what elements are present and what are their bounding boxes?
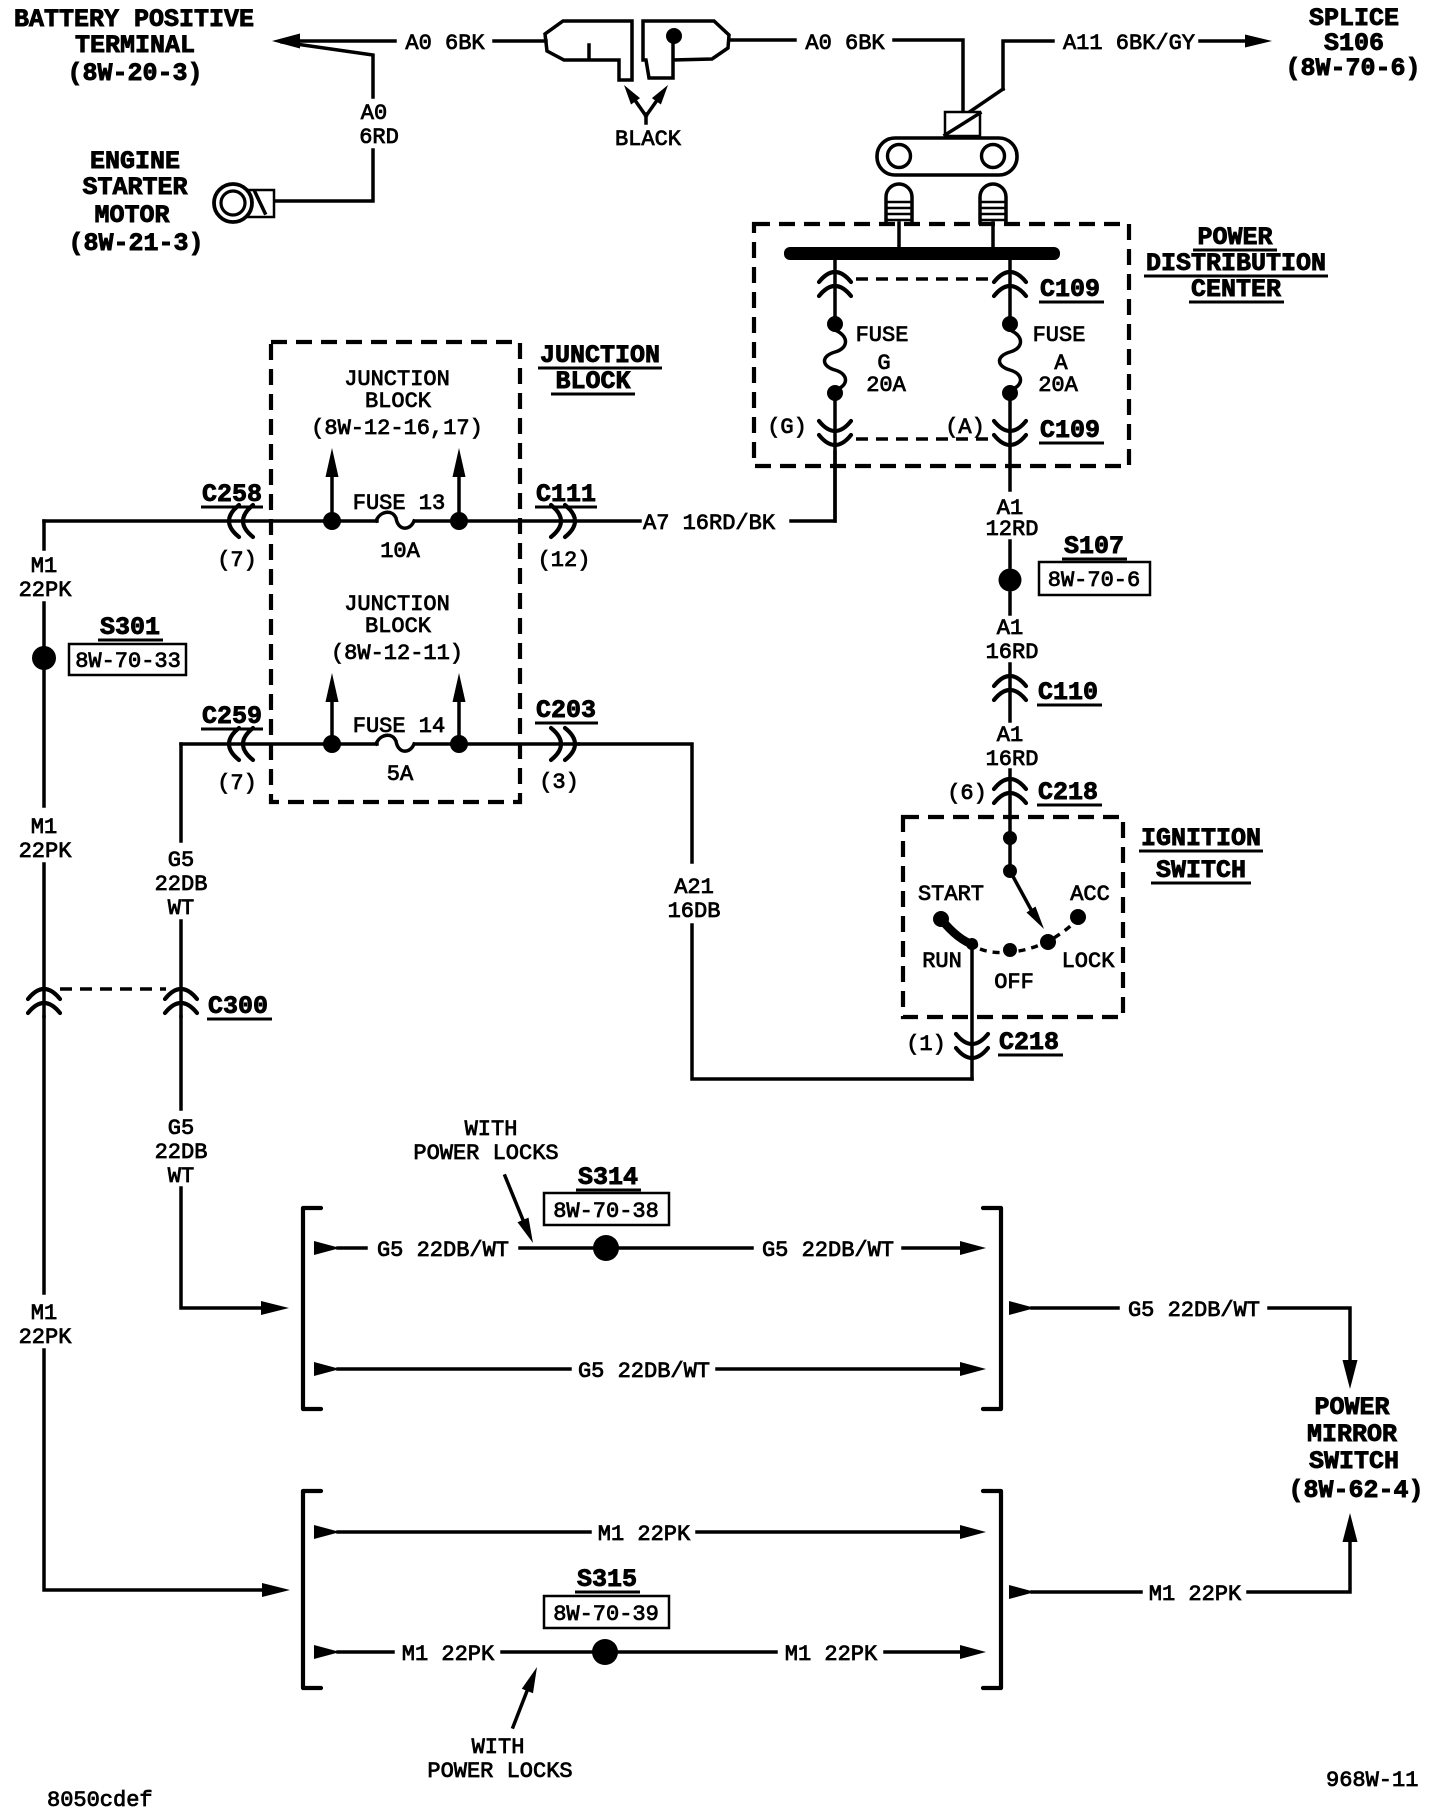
wire xyxy=(619,1650,776,1654)
svg-text:C111: C111 xyxy=(536,480,596,509)
wire A11 to splice xyxy=(1003,41,1053,89)
connector C300 right half xyxy=(165,989,197,1013)
power distribution center dashed box xyxy=(754,224,1129,466)
svg-text:(6): (6) xyxy=(947,781,987,806)
svg-text:POWER: POWER xyxy=(1197,223,1272,252)
fuse element / clamp with diagonal xyxy=(945,112,980,136)
arrow to battery positive terminal xyxy=(272,34,300,49)
svg-text:(8W-20-3): (8W-20-3) xyxy=(67,59,202,88)
leader arrow to splice S314 xyxy=(505,1176,523,1220)
svg-text:22DB: 22DB xyxy=(155,872,208,897)
arrow up to power mirror switch xyxy=(1343,1513,1358,1542)
svg-text:STARTER: STARTER xyxy=(82,173,187,202)
svg-text:BLOCK: BLOCK xyxy=(365,389,432,414)
svg-text:8W-70-33: 8W-70-33 xyxy=(75,649,181,674)
svg-text:POWER: POWER xyxy=(1314,1393,1389,1422)
wire G5 22DB/WT second xyxy=(314,1362,340,1376)
svg-text:16DB: 16DB xyxy=(668,899,721,924)
arrow up to junction block feed right xyxy=(457,474,461,514)
svg-text:6RD: 6RD xyxy=(359,125,399,150)
svg-text:(8W-12-16,17): (8W-12-16,17) xyxy=(311,416,483,441)
svg-text:JUNCTION: JUNCTION xyxy=(540,341,660,370)
wire G5 22DB/WT with splice S314 xyxy=(314,1241,340,1255)
svg-text:START: START xyxy=(918,882,984,907)
svg-text:RUN: RUN xyxy=(922,949,962,974)
wire busbar to fuse A xyxy=(1008,260,1012,330)
svg-text:FUSE: FUSE xyxy=(1033,323,1086,348)
connector C258 xyxy=(229,505,253,537)
fuse 14 element arc xyxy=(376,735,414,751)
connector C109 top right xyxy=(994,272,1026,296)
arrow up to junction block feed left xyxy=(330,474,334,514)
svg-text:BLOCK: BLOCK xyxy=(365,614,432,639)
svg-text:BLACK: BLACK xyxy=(615,127,682,152)
wire xyxy=(1008,770,1012,818)
arrow into lower bracket xyxy=(262,1583,290,1597)
svg-text:(A): (A) xyxy=(945,415,985,440)
fuse 14 terminal dot right xyxy=(450,735,468,753)
svg-text:ENGINE: ENGINE xyxy=(90,147,180,176)
svg-text:M1 22PK: M1 22PK xyxy=(785,1642,878,1667)
splice S315 xyxy=(592,1639,618,1665)
junction block upper label xyxy=(311,367,483,441)
splice S107 xyxy=(999,569,1022,592)
wiper arm with arrowhead xyxy=(1010,871,1034,915)
fuse 13 terminal dot left xyxy=(323,512,341,530)
wire xyxy=(494,39,546,43)
svg-text:968W-11: 968W-11 xyxy=(1326,1768,1418,1793)
svg-text:BLOCK: BLOCK xyxy=(555,367,630,396)
power distribution center label xyxy=(1144,223,1328,304)
svg-text:A21: A21 xyxy=(674,875,714,900)
wire M1 to lower bracket xyxy=(44,1350,264,1590)
fusible link connector right half xyxy=(643,21,729,78)
svg-text:FUSE: FUSE xyxy=(856,323,909,348)
svg-text:22PK: 22PK xyxy=(19,839,73,864)
wire A0 6BK left segment xyxy=(297,39,395,43)
svg-text:FUSE 14: FUSE 14 xyxy=(353,714,445,739)
svg-text:S315: S315 xyxy=(577,1565,637,1594)
svg-text:WT: WT xyxy=(168,896,194,921)
fusible link connector left half xyxy=(545,21,632,80)
node feed dot 1 xyxy=(1003,831,1017,845)
wire into ignition switch xyxy=(1008,818,1012,871)
svg-text:A0: A0 xyxy=(361,101,387,126)
svg-text:A11 6BK/GY: A11 6BK/GY xyxy=(1063,31,1195,56)
wire xyxy=(1032,1590,1141,1594)
battery terminal block xyxy=(877,138,1017,175)
wire xyxy=(1008,541,1012,567)
svg-text:SWITCH: SWITCH xyxy=(1156,856,1246,885)
connector C109 bottom right xyxy=(994,421,1026,445)
wire xyxy=(42,670,46,806)
ring terminal at starter motor xyxy=(214,184,274,222)
wire A0 6RD lower xyxy=(272,150,373,201)
svg-text:22DB: 22DB xyxy=(155,1140,208,1165)
arrow down to power mirror switch xyxy=(1343,1360,1358,1389)
svg-text:G5 22DB/WT: G5 22DB/WT xyxy=(578,1359,710,1384)
wire M1 below C300 xyxy=(42,1017,46,1293)
svg-text:8W-70-38: 8W-70-38 xyxy=(553,1199,659,1224)
svg-text:G5: G5 xyxy=(168,848,194,873)
lower bracket right xyxy=(983,1491,1001,1688)
svg-text:8050cdef: 8050cdef xyxy=(47,1788,153,1813)
junction block title xyxy=(538,341,662,396)
wire A7 to PDC xyxy=(791,452,835,521)
wire fuse 14 row left xyxy=(181,742,377,746)
svg-text:C109: C109 xyxy=(1040,416,1100,445)
svg-text:20A: 20A xyxy=(1038,373,1078,398)
fuse 13 terminal dot right xyxy=(450,512,468,530)
svg-text:M1: M1 xyxy=(31,815,57,840)
connector C109 bottom left xyxy=(819,421,851,445)
wire G5 from fuse 14 row down xyxy=(179,744,183,841)
wire A21 upper xyxy=(578,744,692,862)
wire M1 22PK lower row with splice S315 xyxy=(314,1645,340,1659)
ACC position dot xyxy=(1070,909,1086,925)
svg-text:M1 22PK: M1 22PK xyxy=(598,1522,691,1547)
svg-text:C259: C259 xyxy=(202,702,262,731)
upper bracket right xyxy=(983,1208,1001,1409)
arrow left to link xyxy=(632,96,646,116)
START position dot xyxy=(933,911,949,927)
wire A0 6RD slant from battery arrow xyxy=(282,42,373,97)
splice S314 xyxy=(593,1235,619,1261)
svg-text:22PK: 22PK xyxy=(19,1325,73,1350)
svg-text:16RD: 16RD xyxy=(986,640,1039,665)
LOCK position dot xyxy=(1040,934,1056,950)
fuse A xyxy=(1000,316,1086,401)
wire fuse 13 row right xyxy=(415,519,640,523)
svg-text:C300: C300 xyxy=(208,992,268,1021)
svg-text:G5: G5 xyxy=(168,1116,194,1141)
wire xyxy=(1008,593,1012,614)
wire fuse G to C109 bottom xyxy=(833,393,837,521)
svg-text:S314: S314 xyxy=(578,1163,638,1192)
svg-text:A0 6BK: A0 6BK xyxy=(405,31,485,56)
svg-text:A0 6BK: A0 6BK xyxy=(805,31,885,56)
connector C259 xyxy=(229,728,253,760)
svg-text:20A: 20A xyxy=(866,373,906,398)
bolt left xyxy=(886,184,912,223)
svg-text:MIRROR: MIRROR xyxy=(1307,1420,1397,1449)
svg-text:BATTERY POSITIVE: BATTERY POSITIVE xyxy=(14,5,254,34)
wire xyxy=(620,1246,752,1250)
svg-text:(1): (1) xyxy=(906,1032,946,1057)
arrow to splice S106 xyxy=(1245,35,1272,48)
wire xyxy=(1008,664,1012,721)
wire fuse 13 row left xyxy=(44,519,377,523)
svg-text:8W-70-6: 8W-70-6 xyxy=(1048,568,1140,593)
inner fuse block dashed lines xyxy=(856,279,992,439)
fuse G xyxy=(825,316,909,401)
svg-text:M1 22PK: M1 22PK xyxy=(402,1642,495,1667)
svg-text:IGNITION: IGNITION xyxy=(1141,824,1261,853)
svg-text:(8W-62-4): (8W-62-4) xyxy=(1288,1476,1423,1505)
svg-text:A1: A1 xyxy=(997,616,1023,641)
svg-text:(12): (12) xyxy=(538,548,591,573)
svg-text:C110: C110 xyxy=(1038,678,1098,707)
wire G5 below C300 xyxy=(179,1017,183,1109)
svg-text:G5 22DB/WT: G5 22DB/WT xyxy=(377,1238,509,1263)
svg-text:G5 22DB/WT: G5 22DB/WT xyxy=(1128,1298,1260,1323)
svg-text:WITH: WITH xyxy=(465,1117,518,1142)
svg-text:(8W-70-6): (8W-70-6) xyxy=(1285,54,1420,83)
bolt right xyxy=(980,184,1006,223)
svg-text:(7): (7) xyxy=(217,548,257,573)
wire A21 from ignition to C203 xyxy=(692,925,972,1079)
fuse 13 element arc xyxy=(376,512,414,528)
svg-text:C258: C258 xyxy=(202,480,262,509)
svg-text:POWER LOCKS: POWER LOCKS xyxy=(413,1141,558,1166)
wire fuse A down xyxy=(1008,393,1012,490)
svg-text:OFF: OFF xyxy=(994,970,1034,995)
svg-text:FUSE 13: FUSE 13 xyxy=(353,491,445,516)
ignition switch dashed box xyxy=(903,817,1123,1017)
connector C203 xyxy=(551,728,575,760)
svg-text:SWITCH: SWITCH xyxy=(1309,1447,1399,1476)
wire xyxy=(179,921,183,1016)
arrow into upper bracket xyxy=(261,1301,289,1315)
wire xyxy=(42,864,46,1016)
svg-text:ACC: ACC xyxy=(1070,882,1110,907)
wire M1 from fuse 13 row down xyxy=(42,521,46,549)
dashed detent arc xyxy=(980,919,1077,953)
svg-text:(7): (7) xyxy=(217,771,257,796)
splice S106 label xyxy=(1285,4,1420,83)
wire G5 to power mirror switch xyxy=(1009,1301,1035,1315)
OFF position dot xyxy=(1003,943,1017,957)
svg-text:S107: S107 xyxy=(1064,532,1124,561)
switch blade START to RUN xyxy=(941,919,974,945)
upper bracket left xyxy=(303,1208,321,1409)
svg-text:A7 16RD/BK: A7 16RD/BK xyxy=(643,511,776,536)
connector C300 left half xyxy=(28,989,60,1013)
arrow up to junction block feed left xyxy=(330,699,334,737)
svg-text:12RD: 12RD xyxy=(986,517,1039,542)
svg-text:8W-70-39: 8W-70-39 xyxy=(553,1602,659,1627)
svg-text:WT: WT xyxy=(168,1164,194,1189)
svg-text:16RD: 16RD xyxy=(986,747,1039,772)
svg-text:5A: 5A xyxy=(387,762,414,787)
wire A0 6BK right segment xyxy=(729,38,795,42)
leader arrow to splice S315 xyxy=(513,1691,527,1727)
arrow right to link xyxy=(646,96,660,123)
busbar xyxy=(784,247,1060,260)
svg-text:M1: M1 xyxy=(31,1301,57,1326)
power mirror switch label xyxy=(1288,1393,1423,1505)
junction block dashed box xyxy=(271,342,520,802)
lower bracket left xyxy=(303,1491,321,1688)
battery positive terminal label xyxy=(14,5,254,88)
wire busbar to fuse G xyxy=(833,260,837,330)
wire bolt right to busbar xyxy=(991,223,995,247)
svg-text:MOTOR: MOTOR xyxy=(94,201,169,230)
svg-text:DISTRIBUTION: DISTRIBUTION xyxy=(1146,249,1326,278)
svg-text:M1: M1 xyxy=(31,554,57,579)
connector C218 bottom xyxy=(956,1034,988,1058)
wire fuse 14 row right xyxy=(415,742,578,746)
svg-text:A1: A1 xyxy=(997,723,1023,748)
svg-text:WITH: WITH xyxy=(472,1735,525,1760)
svg-text:22PK: 22PK xyxy=(19,578,73,603)
junction block lower label xyxy=(331,592,463,666)
svg-text:C218: C218 xyxy=(1038,778,1098,807)
svg-text:(3): (3) xyxy=(539,770,579,795)
svg-text:G5 22DB/WT: G5 22DB/WT xyxy=(762,1238,894,1263)
wire bolt left to busbar xyxy=(897,223,901,247)
splice S301 xyxy=(32,646,56,670)
svg-text:CENTER: CENTER xyxy=(1191,275,1281,304)
svg-text:S301: S301 xyxy=(100,613,160,642)
wire M1 22PK upper row xyxy=(314,1525,340,1539)
arrow up to junction block feed right xyxy=(457,699,461,737)
slant wire A11 xyxy=(968,89,1003,113)
connector C111 xyxy=(551,505,575,537)
connector C110 xyxy=(994,676,1026,700)
dashed link C300 xyxy=(60,987,166,991)
node feed dot 2 xyxy=(1003,864,1017,878)
wire ignition output xyxy=(970,944,974,1079)
wire xyxy=(42,603,46,646)
wire xyxy=(1200,39,1248,43)
svg-text:C218: C218 xyxy=(999,1028,1059,1057)
svg-text:POWER LOCKS: POWER LOCKS xyxy=(427,1759,572,1784)
svg-text:10A: 10A xyxy=(380,539,420,564)
svg-text:(8W-12-11): (8W-12-11) xyxy=(331,641,463,666)
svg-text:LOCK: LOCK xyxy=(1062,949,1116,974)
svg-text:C109: C109 xyxy=(1040,275,1100,304)
fuse 14 terminal dot left xyxy=(323,735,341,753)
connector C218 top xyxy=(994,779,1026,803)
svg-text:TERMINAL: TERMINAL xyxy=(75,31,195,60)
wire to power distribution center xyxy=(894,40,963,112)
svg-text:M1 22PK: M1 22PK xyxy=(1149,1582,1242,1607)
terminal dot on fusible link xyxy=(666,28,682,44)
svg-text:(G): (G) xyxy=(767,415,807,440)
svg-text:C203: C203 xyxy=(536,696,596,725)
RUN contact dot xyxy=(966,938,978,950)
svg-text:(8W-21-3): (8W-21-3) xyxy=(68,229,203,258)
connector C109 top left xyxy=(819,272,851,296)
engine starter motor label xyxy=(68,147,203,258)
wire G5 to upper bracket xyxy=(181,1188,263,1308)
ignition switch label xyxy=(1139,824,1263,885)
